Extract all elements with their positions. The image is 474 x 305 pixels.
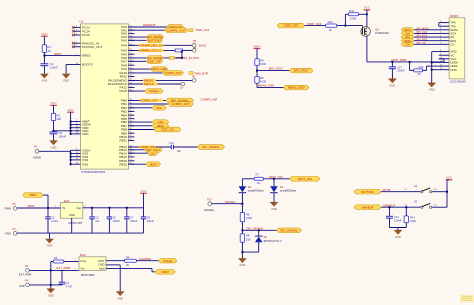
svg-text:PC15: PC15: [82, 33, 90, 37]
svg-text:DISP1: DISP1: [450, 14, 459, 18]
svg-text:C8: C8: [147, 215, 151, 219]
svg-text:SWCLK: SWCLK: [144, 82, 154, 86]
svg-text:MCP73831: MCP73831: [81, 273, 95, 277]
svg-text:Prog: Prog: [81, 259, 87, 263]
svg-text:NRST: NRST: [54, 52, 62, 56]
svg-text:CHARGE: CHARGE: [139, 257, 151, 261]
svg-text:SPI_CLK: SPI_CLK: [416, 30, 427, 34]
svg-text:COMP1_OUT: COMP1_OUT: [165, 71, 182, 75]
svg-text:DISP_OFF: DISP_OFF: [148, 59, 161, 63]
svg-text:2.2uF: 2.2uF: [51, 219, 58, 223]
svg-text:GND: GND: [271, 207, 277, 211]
svg-text:VBAT: VBAT: [27, 204, 35, 208]
svg-text:TEST_SIG: TEST_SIG: [298, 177, 313, 181]
svg-text:PF1OSC_OUT: PF1OSC_OUT: [82, 45, 103, 49]
svg-text:C12: C12: [169, 141, 174, 145]
svg-text:BAT_VOLT: BAT_VOLT: [269, 67, 284, 71]
svg-text:SIGNAL: SIGNAL: [204, 208, 215, 212]
svg-text:VSS: VSS: [82, 162, 88, 166]
svg-text:100K: 100K: [246, 216, 252, 220]
svg-text:SPI_DCX: SPI_DCX: [416, 34, 427, 38]
svg-text:R5: R5: [54, 256, 58, 260]
svg-text:GND: GND: [63, 79, 69, 83]
svg-text:C4: C4: [66, 281, 70, 285]
svg-text:DIV_SIGNAL: DIV_SIGNAL: [280, 228, 298, 232]
svg-text:NC: NC: [177, 149, 181, 153]
svg-text:SIGNAL: SIGNAL: [225, 200, 236, 204]
svg-text:C7: C7: [130, 215, 134, 219]
svg-text:100K: 100K: [410, 219, 416, 223]
svg-text:100nF: 100nF: [394, 218, 402, 222]
svg-text:CSe: CSe: [405, 42, 411, 46]
svg-text:R7: R7: [256, 173, 260, 177]
svg-text:PA3: PA3: [121, 38, 127, 42]
svg-text:Out: Out: [76, 206, 81, 210]
svg-text:100nF: 100nF: [59, 134, 67, 138]
svg-text:C2: C2: [51, 215, 55, 219]
svg-text:DIV_SIGNAL: DIV_SIGNAL: [202, 145, 220, 149]
svg-text:VCC: VCC: [364, 6, 370, 10]
svg-text:R14: R14: [410, 215, 415, 219]
svg-text:1K: 1K: [329, 28, 332, 32]
svg-text:DISP_OFF: DISP_OFF: [307, 22, 321, 26]
svg-text:EXT_PWR: EXT_PWR: [19, 273, 32, 277]
svg-text:TIM2_ETR: TIM2_ETR: [194, 71, 208, 75]
svg-text:DCs: DCs: [157, 106, 163, 110]
svg-text:DA1: DA1: [64, 199, 70, 203]
svg-text:PWR: PWR: [5, 206, 11, 210]
svg-text:PB15: PB15: [119, 162, 127, 166]
svg-text:LCD 160x80: LCD 160x80: [450, 80, 466, 84]
svg-text:GND: GND: [48, 294, 54, 298]
svg-text:COMP2_INP: COMP2_INP: [201, 97, 218, 101]
svg-text:TIM2_CH1: TIM2_CH1: [195, 28, 209, 32]
svg-text:VCC: VCC: [68, 108, 74, 112]
svg-text:C9: C9: [59, 131, 63, 135]
svg-text:PA15: PA15: [120, 89, 128, 93]
svg-text:SPI_CS: SPI_CS: [416, 41, 425, 45]
svg-text:Vbat: Vbat: [99, 266, 105, 270]
svg-text:R13: R13: [419, 65, 424, 69]
svg-text:P10: P10: [207, 199, 212, 202]
svg-text:VCC: VCC: [140, 189, 146, 193]
svg-text:R11: R11: [349, 9, 354, 13]
svg-text:4.7uF: 4.7uF: [66, 285, 73, 289]
svg-text:100nF: 100nF: [50, 65, 58, 69]
svg-text:AGND: AGND: [33, 155, 41, 159]
svg-text:Charge: Charge: [149, 89, 159, 93]
svg-text:SPI_RES: SPI_RES: [416, 37, 427, 41]
svg-text:1K: 1K: [48, 49, 51, 53]
svg-text:C14: C14: [394, 215, 399, 219]
svg-text:COMP1_OUT: COMP1_OUT: [167, 28, 186, 32]
svg-text:2K: 2K: [126, 263, 129, 267]
svg-text:100K: 100K: [350, 16, 356, 20]
svg-text:WAKEUP: WAKEUP: [143, 23, 155, 27]
svg-text:R8: R8: [260, 58, 264, 62]
svg-text:VCC: VCC: [41, 32, 47, 36]
svg-text:R9: R9: [260, 76, 264, 80]
svg-text:OPAMP2_OUT 0.1: OPAMP2_OUT 0.1: [140, 48, 162, 52]
svg-text:EXT_PWR: EXT_PWR: [56, 266, 70, 270]
svg-text:COMP1_OUT: COMP1_OUT: [141, 98, 158, 102]
svg-text:MEAS_GND: MEAS_GND: [258, 84, 274, 88]
svg-text:GND: GND: [395, 235, 401, 239]
svg-text:100: 100: [57, 117, 62, 121]
svg-text:BAT_VOLT: BAT_VOLT: [294, 69, 309, 73]
svg-text:GND: GND: [117, 296, 123, 300]
svg-text:BUTTON2: BUTTON2: [361, 190, 374, 194]
svg-text:R8: R8: [246, 234, 250, 238]
svg-text:GND: GND: [240, 263, 246, 267]
svg-text:DIV_SIGNAL: DIV_SIGNAL: [246, 226, 263, 230]
svg-text:1K: 1K: [257, 181, 260, 185]
svg-text:STAT: STAT: [98, 259, 105, 263]
svg-text:NRES: NRES: [82, 54, 91, 58]
svg-text:TEST_SIG: TEST_SIG: [161, 128, 174, 132]
svg-text:Vin: Vin: [81, 266, 85, 270]
svg-text:1uF: 1uF: [95, 219, 100, 223]
svg-text:GND: GND: [42, 79, 48, 83]
svg-text:100K: 100K: [260, 62, 266, 66]
svg-text:GND: GND: [51, 145, 57, 149]
svg-text:MOSI: MOSI: [150, 162, 157, 166]
svg-text:BUTTON2: BUTTON2: [148, 38, 161, 42]
svg-text:R2: R2: [57, 113, 61, 117]
svg-text:pmeg4005aea: pmeg4005aea: [248, 190, 265, 193]
svg-text:C6: C6: [113, 215, 117, 219]
svg-text:WAKEUP: WAKEUP: [362, 205, 374, 209]
svg-text:VBAT: VBAT: [161, 270, 169, 274]
svg-text:100nF: 100nF: [147, 219, 155, 223]
svg-text:Charge: Charge: [163, 259, 173, 263]
svg-text:C3: C3: [50, 62, 54, 66]
svg-text:OPAMP2_NEG_OU: OPAMP2_NEG_OU: [140, 43, 163, 47]
svg-text:R10: R10: [328, 20, 333, 24]
svg-text:GND: GND: [99, 263, 105, 267]
svg-text:BZT52C4V7S-V: BZT52C4V7S-V: [264, 240, 282, 243]
svg-text:R1: R1: [48, 45, 52, 49]
svg-text:GND: GND: [5, 231, 11, 235]
svg-text:BOOT0: BOOT0: [82, 63, 93, 67]
svg-text:VDD: VDD: [82, 132, 89, 136]
svg-text:TEST_SIG: TEST_SIG: [269, 175, 284, 179]
svg-text:100nF: 100nF: [130, 219, 138, 223]
svg-text:GND: GND: [390, 84, 396, 88]
svg-text:VCC: VCC: [446, 176, 452, 180]
svg-text:IN: IN: [62, 206, 65, 210]
svg-text:GND: GND: [47, 244, 53, 248]
svg-text:MCP1702T: MCP1702T: [69, 221, 83, 225]
svg-text:VCC: VCC: [50, 101, 56, 105]
svg-text:PA4: PA4: [121, 43, 127, 47]
svg-text:DA2: DA2: [80, 253, 86, 257]
svg-text:GND: GND: [429, 88, 435, 92]
svg-text:MEAS_GND: MEAS_GND: [288, 86, 306, 90]
svg-text:BTN2: BTN2: [383, 188, 391, 192]
svg-text:DISP_PWR: DISP_PWR: [391, 58, 406, 62]
svg-text:100nF: 100nF: [113, 219, 121, 223]
svg-text:DAC1: DAC1: [199, 43, 207, 47]
svg-text:PB11: PB11: [120, 139, 128, 143]
svg-text:R4: R4: [126, 255, 130, 259]
svg-text:C5: C5: [95, 215, 99, 219]
svg-text:GND: GND: [69, 213, 75, 217]
svg-text:10K: 10K: [246, 237, 251, 241]
svg-text:DISP_OFF: DISP_OFF: [284, 24, 299, 28]
svg-text:SPI_MOSI: SPI_MOSI: [416, 26, 429, 30]
svg-text:GND: GND: [450, 68, 456, 72]
svg-text:STM32F030C8T6: STM32F030C8T6: [81, 170, 105, 174]
svg-text:VBAT: VBAT: [29, 193, 37, 197]
svg-text:GND: GND: [19, 284, 25, 288]
svg-text:CS: CS: [450, 42, 454, 46]
svg-text:PJML6402: PJML6402: [375, 31, 389, 35]
svg-text:COMP2_OUT: COMP2_OUT: [171, 102, 190, 106]
svg-text:MEAS_GND: MEAS_GND: [152, 67, 167, 71]
svg-text:R6: R6: [246, 212, 250, 216]
svg-text:U1: U1: [80, 20, 84, 24]
svg-text:VBAT: VBAT: [253, 44, 261, 48]
svg-text:CLK: CLK: [150, 151, 155, 155]
svg-text:100nF: 100nF: [397, 69, 405, 73]
svg-text:pmeg4005aea: pmeg4005aea: [280, 190, 297, 193]
